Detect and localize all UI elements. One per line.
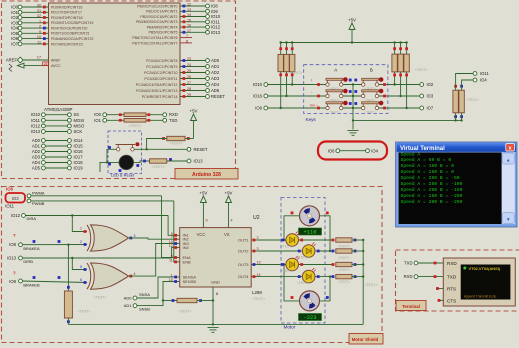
svg-text:OUT1: OUT1 (238, 237, 249, 242)
wire motorA-OUT1 (284, 216, 300, 240)
resistor (336, 238, 352, 242)
red annotation boxed IO3 (6, 193, 26, 203)
svg-text:<TEXT>: <TEXT> (50, 109, 63, 113)
IC U1 pin PB0 row (137, 3, 218, 9)
svg-text:Motor Shield: Motor Shield (352, 337, 379, 342)
wire DIRA (25, 215, 168, 217)
svg-text:7: 7 (186, 34, 188, 38)
IC U2 pin OUT4 (238, 273, 261, 279)
svg-text:+5V: +5V (190, 109, 198, 114)
logic marker (298, 275, 301, 278)
svg-text:IO18: IO18 (74, 160, 84, 165)
wire bottom rail (353, 119, 462, 121)
svg-text:<TEXT>: <TEXT> (365, 110, 376, 114)
logic-state marker (332, 250, 335, 253)
wire +5V rail (281, 42, 407, 44)
xor gate U3B (87, 263, 129, 289)
svg-text:LED & Reset: LED & Reset (111, 173, 135, 178)
logic-state marker (399, 47, 402, 50)
logic-state marker (143, 160, 146, 163)
resistor (336, 249, 352, 253)
LED D5 (302, 268, 315, 283)
wire RK4 bottom (394, 72, 396, 85)
svg-text:+9V: +9V (225, 191, 233, 196)
logic-state marker (169, 158, 172, 161)
wire R6 left (163, 300, 177, 302)
svg-text:IO11: IO11 (211, 19, 220, 24)
svg-text:IO11: IO11 (480, 71, 489, 76)
net IO10-SS (31, 112, 79, 117)
resistor RK6 keypad pull-up (404, 54, 409, 72)
resistor (459, 90, 464, 113)
svg-text:IO2: IO2 (11, 15, 18, 20)
ground keypad (348, 131, 359, 136)
svg-text:IO13: IO13 (31, 129, 41, 134)
svg-text:ENB: ENB (183, 259, 192, 264)
LED D3 (302, 243, 315, 258)
IC U2 pin OUT1 (238, 236, 259, 242)
svg-text:17: 17 (37, 56, 41, 60)
svg-text:IO15: IO15 (74, 144, 84, 149)
svg-text:IO3: IO3 (12, 196, 19, 201)
junction (283, 263, 285, 265)
svg-text:31: 31 (37, 9, 41, 13)
terminal scrollbar (502, 153, 515, 225)
svg-text:30: 30 (37, 4, 41, 8)
svg-text:<TEXT>: <TEXT> (338, 256, 350, 260)
svg-text:<TEXT>: <TEXT> (364, 283, 377, 287)
LED D2 (286, 232, 299, 247)
IC U1 pin PD6 row (11, 35, 93, 41)
svg-text:AD0: AD0 (211, 58, 220, 63)
wire R3 right (185, 138, 194, 140)
IC U1 pin PC5 row (136, 87, 220, 93)
logic-state marker (438, 299, 441, 302)
red annotation rounded box (318, 142, 387, 160)
wire R3 to reset node (147, 139, 167, 150)
logic-state marker (172, 299, 175, 302)
IC U1 pin PC6 row (142, 93, 226, 99)
virtual terminal instrument VT1 (443, 258, 515, 306)
svg-text:27: 27 (187, 81, 191, 85)
junction (460, 119, 462, 121)
Motor module dashed box (281, 198, 325, 324)
wire RTS stub (436, 288, 443, 290)
junction (362, 250, 364, 252)
IC U1 pin PB5 row (149, 29, 221, 35)
wire OUT4 (258, 276, 333, 278)
wire RM2 right (352, 250, 363, 252)
svg-text:AD5: AD5 (211, 88, 220, 93)
svg-text:Speed A = 250 B = -100: Speed A = 250 B = -100 (401, 181, 463, 187)
wire GND stem (212, 287, 214, 324)
IC U1 pin PB4 row (147, 24, 221, 30)
IC U1 pin AREF row (6, 56, 62, 63)
logic marker (383, 83, 386, 86)
IC U2 pin ENB (169, 258, 191, 264)
svg-text:AREF: AREF (6, 58, 18, 63)
svg-text:RXD: RXD (404, 274, 413, 279)
IC U1 pin PC0 row (146, 57, 220, 63)
resistor R5 brake pull-down (64, 291, 72, 318)
svg-text:25: 25 (187, 69, 191, 73)
wire DIRB to XOR2 (72, 258, 87, 270)
svg-text:PD7/AIN1/PCINT23: PD7/AIN1/PCINT23 (51, 42, 83, 46)
svg-text:IO7: IO7 (427, 106, 434, 111)
node (27, 199, 31, 203)
wire RXD-TXD (418, 276, 443, 278)
svg-text:TXD: TXD (447, 275, 457, 280)
logic-state marker (108, 146, 111, 149)
IC U1 pin PC4 row (136, 81, 220, 87)
svg-text:<TEXT>: <TEXT> (466, 98, 479, 102)
svg-text:<TEXT>: <TEXT> (414, 68, 427, 72)
junction (405, 41, 407, 43)
svg-text:5: 5 (80, 265, 82, 269)
svg-text:<TEXT>: <TEXT> (93, 296, 106, 300)
svg-text:PD5/T1/OC0B/PCINT21: PD5/T1/OC0B/PCINT21 (51, 32, 90, 36)
logic-state marker (454, 115, 457, 118)
svg-text:Speed A = 250 B = -150: Speed A = 250 B = -150 (401, 187, 463, 193)
logic marker (298, 250, 301, 253)
svg-text:AD4: AD4 (211, 82, 220, 87)
junction (329, 275, 331, 277)
logic-state marker (67, 320, 70, 323)
logic-state marker (285, 47, 288, 50)
IC U1 pin PC3 row (144, 75, 219, 81)
svg-text:?: ? (13, 271, 16, 276)
net keypad row 3 (255, 106, 434, 111)
logic-state marker (405, 47, 408, 50)
wire R5 to ground rail (67, 318, 69, 324)
svg-text:AVCC: AVCC (51, 64, 61, 68)
push button key A1 (326, 77, 348, 91)
svg-text:SNSB: SNSB (139, 307, 150, 312)
svg-text:4: 4 (134, 272, 136, 276)
net IO11-MOSI (31, 118, 84, 123)
IC U1 pin PD1 row (11, 9, 82, 15)
svg-text:IO10: IO10 (31, 112, 41, 117)
svg-text:23: 23 (187, 57, 191, 61)
logic-state marker (460, 85, 463, 88)
resistor (150, 159, 167, 163)
svg-text:AD3: AD3 (211, 76, 220, 81)
wire RK5 top (400, 43, 402, 55)
Arduino 328 label box (175, 169, 238, 180)
svg-text:IO0: IO0 (94, 112, 101, 117)
wire OUT1 (258, 239, 333, 241)
junction (71, 257, 73, 259)
svg-text:IO12: IO12 (11, 213, 21, 218)
logic-state marker (285, 73, 288, 76)
IC U1 pin PB2 row (140, 13, 220, 19)
svg-text:IO11: IO11 (5, 204, 14, 209)
svg-text:IO1: IO1 (94, 118, 101, 123)
svg-text:PD1/TXD/PCINT17: PD1/TXD/PCINT17 (51, 11, 82, 15)
wire R4 to IO13 (167, 160, 187, 162)
junction (352, 119, 354, 121)
node (336, 149, 340, 153)
wire ground stem (352, 120, 354, 129)
svg-text:RXD: RXD (447, 261, 457, 266)
xor gate U3A (87, 225, 129, 251)
IC U2 pin SENSA (171, 274, 197, 280)
logic marker (300, 263, 303, 266)
svg-text:15: 15 (187, 18, 191, 22)
node (473, 72, 477, 76)
motor A speed readout (299, 228, 322, 236)
svg-text:IO4: IO4 (371, 148, 378, 153)
svg-text:RTS: RTS (447, 287, 456, 292)
wire ground rail (68, 323, 363, 325)
wire RM1 right (352, 239, 363, 241)
svg-text:PD2/INT0/PCINT18: PD2/INT0/PCINT18 (51, 16, 83, 20)
svg-text:+5V: +5V (348, 18, 356, 23)
wire BRAKEA to R5 (67, 245, 69, 291)
svg-text:AREF: AREF (51, 58, 61, 62)
IC U2 pin IN1 (171, 232, 190, 238)
wire IO6-IO4 (340, 150, 366, 152)
junction (351, 41, 353, 43)
IC U1 ATMEGA328P body (49, 3, 181, 105)
IC U1 pin PD4 row (11, 25, 87, 31)
junction (106, 161, 108, 163)
svg-text:VT02,VT02(ANSI): VT02,VT02(ANSI) (469, 266, 501, 271)
svg-text:PC6/RESET/PCINT14: PC6/RESET/PCINT14 (142, 95, 178, 99)
junction (405, 107, 407, 109)
svg-text:AD1: AD1 (32, 144, 41, 149)
wire RK1 bottom (280, 72, 282, 108)
svg-text:4: 4 (231, 219, 233, 223)
logic-state marker (332, 263, 335, 266)
svg-text:GND: GND (211, 280, 220, 285)
Terminal subsystem dashed border (396, 250, 519, 311)
junction (212, 299, 214, 301)
logic marker (354, 90, 357, 93)
IC U1 pin PD2 row (11, 14, 82, 20)
IC U2 pin IN4 (169, 244, 190, 250)
svg-text:AD0: AD0 (124, 296, 133, 301)
IC U2 pin IN3 (169, 240, 190, 246)
IC U1 pin AVCC row (9, 62, 61, 72)
IC U1 pin PD3 row (11, 19, 93, 25)
motor B speed readout (299, 314, 322, 322)
resistor (336, 274, 352, 278)
svg-text:SNSA: SNSA (139, 292, 150, 297)
wire PWMB-ENB (173, 201, 175, 262)
node (187, 159, 191, 163)
wire RK2 top (286, 43, 288, 55)
logic marker XOR1 out (129, 237, 132, 240)
junction (393, 41, 395, 43)
wire RK6 bottom (406, 72, 408, 108)
svg-text:14: 14 (187, 13, 191, 17)
svg-text:<TEXT>: <TEXT> (83, 257, 96, 261)
svg-text:B: B (370, 68, 373, 73)
Keys module dashed box (304, 65, 388, 114)
svg-text:<TEXT>: <TEXT> (128, 124, 141, 128)
svg-text:11: 11 (37, 41, 41, 45)
svg-text:IO8: IO8 (211, 4, 218, 9)
wire RK3 bottom (291, 72, 293, 85)
wire RM3 right (352, 264, 363, 266)
svg-text:18: 18 (43, 62, 47, 66)
IC U1 pin PC1 row (146, 63, 220, 69)
svg-text:1: 1 (39, 19, 41, 23)
wire XOR2-IN3 (129, 244, 174, 277)
wire TXD-RXD (418, 262, 443, 264)
motor A (300, 206, 320, 226)
svg-text:IO10: IO10 (253, 82, 263, 87)
svg-text:PB0/ICP1/CLKO/PCINT0: PB0/ICP1/CLKO/PCINT0 (137, 4, 177, 8)
logic-state marker (199, 299, 202, 302)
svg-text:BRAKEA: BRAKEA (23, 246, 40, 251)
IC U1 pin PB6 row (132, 34, 192, 40)
IC U1 pin PD0 row (11, 4, 82, 10)
svg-text:Virtual Terminal: Virtual Terminal (400, 146, 445, 152)
svg-text:<TEXT>: <TEXT> (178, 310, 191, 314)
logic-state marker (326, 296, 329, 299)
IC U1 pin PB3 row (136, 18, 220, 24)
wire bus down to ground rail (362, 240, 364, 324)
junction (212, 323, 214, 325)
svg-text:DIRB: DIRB (23, 259, 33, 264)
wire PWMA-ENA (162, 196, 174, 258)
IC U2 pin OUT2 (238, 247, 259, 253)
logic marker XOR2 out (129, 275, 132, 278)
svg-text:IO9: IO9 (9, 279, 16, 284)
junction (362, 263, 364, 265)
logic marker (281, 239, 284, 242)
svg-text:PD6/AIN0/OC0A/PCINT22: PD6/AIN0/OC0A/PCINT22 (51, 37, 94, 41)
logic-state marker (354, 239, 357, 242)
node (19, 256, 23, 260)
svg-text:IO16: IO16 (74, 149, 84, 154)
logic-state marker (354, 250, 357, 253)
logic-state marker (33, 276, 36, 279)
logic-state marker (279, 47, 282, 50)
svg-text:MOSI: MOSI (74, 118, 85, 123)
wire IO4 to RP2 (462, 80, 474, 90)
IC U2 pin ENA (171, 254, 191, 260)
junction (352, 95, 354, 97)
wire motorB-OUT3 (284, 265, 300, 301)
resistor (336, 262, 352, 266)
svg-text:Speed A = 150 B = 0: Speed A = 150 B = 0 (401, 163, 455, 169)
wire +5V to R3 (193, 121, 195, 139)
svg-text:PB7/TOSC2/XTAL2/PCINT7: PB7/TOSC2/XTAL2/PCINT7 (132, 41, 177, 45)
node (133, 296, 137, 300)
svg-text:26: 26 (187, 75, 191, 79)
logic-state marker (279, 73, 282, 76)
wire RM4 right (352, 276, 363, 278)
logic marker (84, 230, 87, 233)
IC U1 pin PD5 row (11, 30, 90, 36)
svg-text:IO6: IO6 (328, 148, 335, 153)
logic-state marker (434, 262, 437, 265)
svg-text:PB1/OC1A/PCINT1: PB1/OC1A/PCINT1 (146, 10, 177, 14)
wire RK6 top (406, 43, 408, 55)
node (187, 147, 191, 151)
svg-text:IO10: IO10 (211, 14, 221, 19)
svg-text:PC3/ADC3/PCINT11: PC3/ADC3/PCINT11 (144, 77, 177, 81)
svg-text:9: 9 (39, 30, 41, 34)
svg-text:PD4/T0/XCK/PCINT20: PD4/T0/XCK/PCINT20 (51, 27, 87, 31)
push button key B1 (362, 77, 384, 91)
svg-text:PB4/MISO/PCINT4: PB4/MISO/PCINT4 (147, 26, 178, 30)
svg-text:IO5: IO5 (6, 187, 14, 192)
logic marker (84, 281, 87, 284)
svg-text:IO8: IO8 (9, 242, 16, 247)
logic marker (317, 275, 320, 278)
resistor (177, 298, 197, 302)
logic-state marker (291, 47, 294, 50)
wire RP1 bottom (455, 113, 457, 121)
svg-text:PC5/ADC5/SCL/PCINT13: PC5/ADC5/SCL/PCINT13 (136, 89, 177, 93)
junction (291, 41, 293, 43)
svg-text:SENSB: SENSB (183, 279, 197, 284)
svg-text:<TEXT>: <TEXT> (77, 310, 90, 314)
svg-text:+110: +110 (304, 230, 317, 236)
svg-text:IN4: IN4 (183, 245, 190, 250)
net AD1-IO15 (32, 144, 83, 149)
svg-text:12: 12 (187, 3, 191, 7)
svg-text:IO0: IO0 (11, 5, 18, 10)
push button key B3 (362, 101, 384, 115)
svg-text:OUT2: OUT2 (238, 248, 249, 253)
wire VS (228, 203, 230, 228)
logic-state marker (354, 275, 357, 278)
wire DIRB-IN4 (172, 248, 174, 259)
svg-text:10: 10 (37, 35, 41, 39)
junction (283, 239, 285, 241)
svg-text:24: 24 (187, 63, 191, 67)
logic-state marker (326, 212, 329, 215)
svg-text:Terminal: Terminal (402, 304, 420, 309)
logic marker (354, 79, 357, 82)
power (226, 196, 232, 203)
junction (329, 250, 331, 252)
wire button-LED common (107, 149, 119, 162)
wire DIRA to XOR1 (72, 216, 87, 232)
logic-state marker (67, 286, 70, 289)
svg-text:L298: L298 (252, 290, 262, 295)
svg-text:AD4: AD4 (32, 160, 41, 165)
svg-text:TXD: TXD (404, 261, 412, 266)
logic marker (349, 102, 352, 105)
logic marker (354, 102, 357, 105)
svg-text:OUT4: OUT4 (238, 274, 249, 279)
wire XOR1-IN2 (129, 238, 174, 239)
svg-text:IO3: IO3 (427, 94, 434, 99)
logic marker (317, 83, 320, 86)
logic-state marker (436, 287, 439, 290)
node (27, 194, 31, 198)
logic-state marker (291, 212, 294, 215)
junction (280, 107, 282, 109)
svg-text:2: 2 (80, 240, 82, 244)
svg-text:6: 6 (80, 278, 82, 282)
logic marker (84, 243, 87, 246)
logic-state marker (187, 137, 190, 140)
logic-state marker (393, 74, 396, 77)
logic-state marker (405, 74, 408, 77)
IC U2 L298 body (180, 228, 252, 287)
junction (393, 83, 395, 85)
svg-text:13: 13 (187, 8, 191, 12)
svg-text:CTS: CTS (447, 298, 456, 303)
svg-text:<TEXT>: <TEXT> (338, 280, 350, 284)
